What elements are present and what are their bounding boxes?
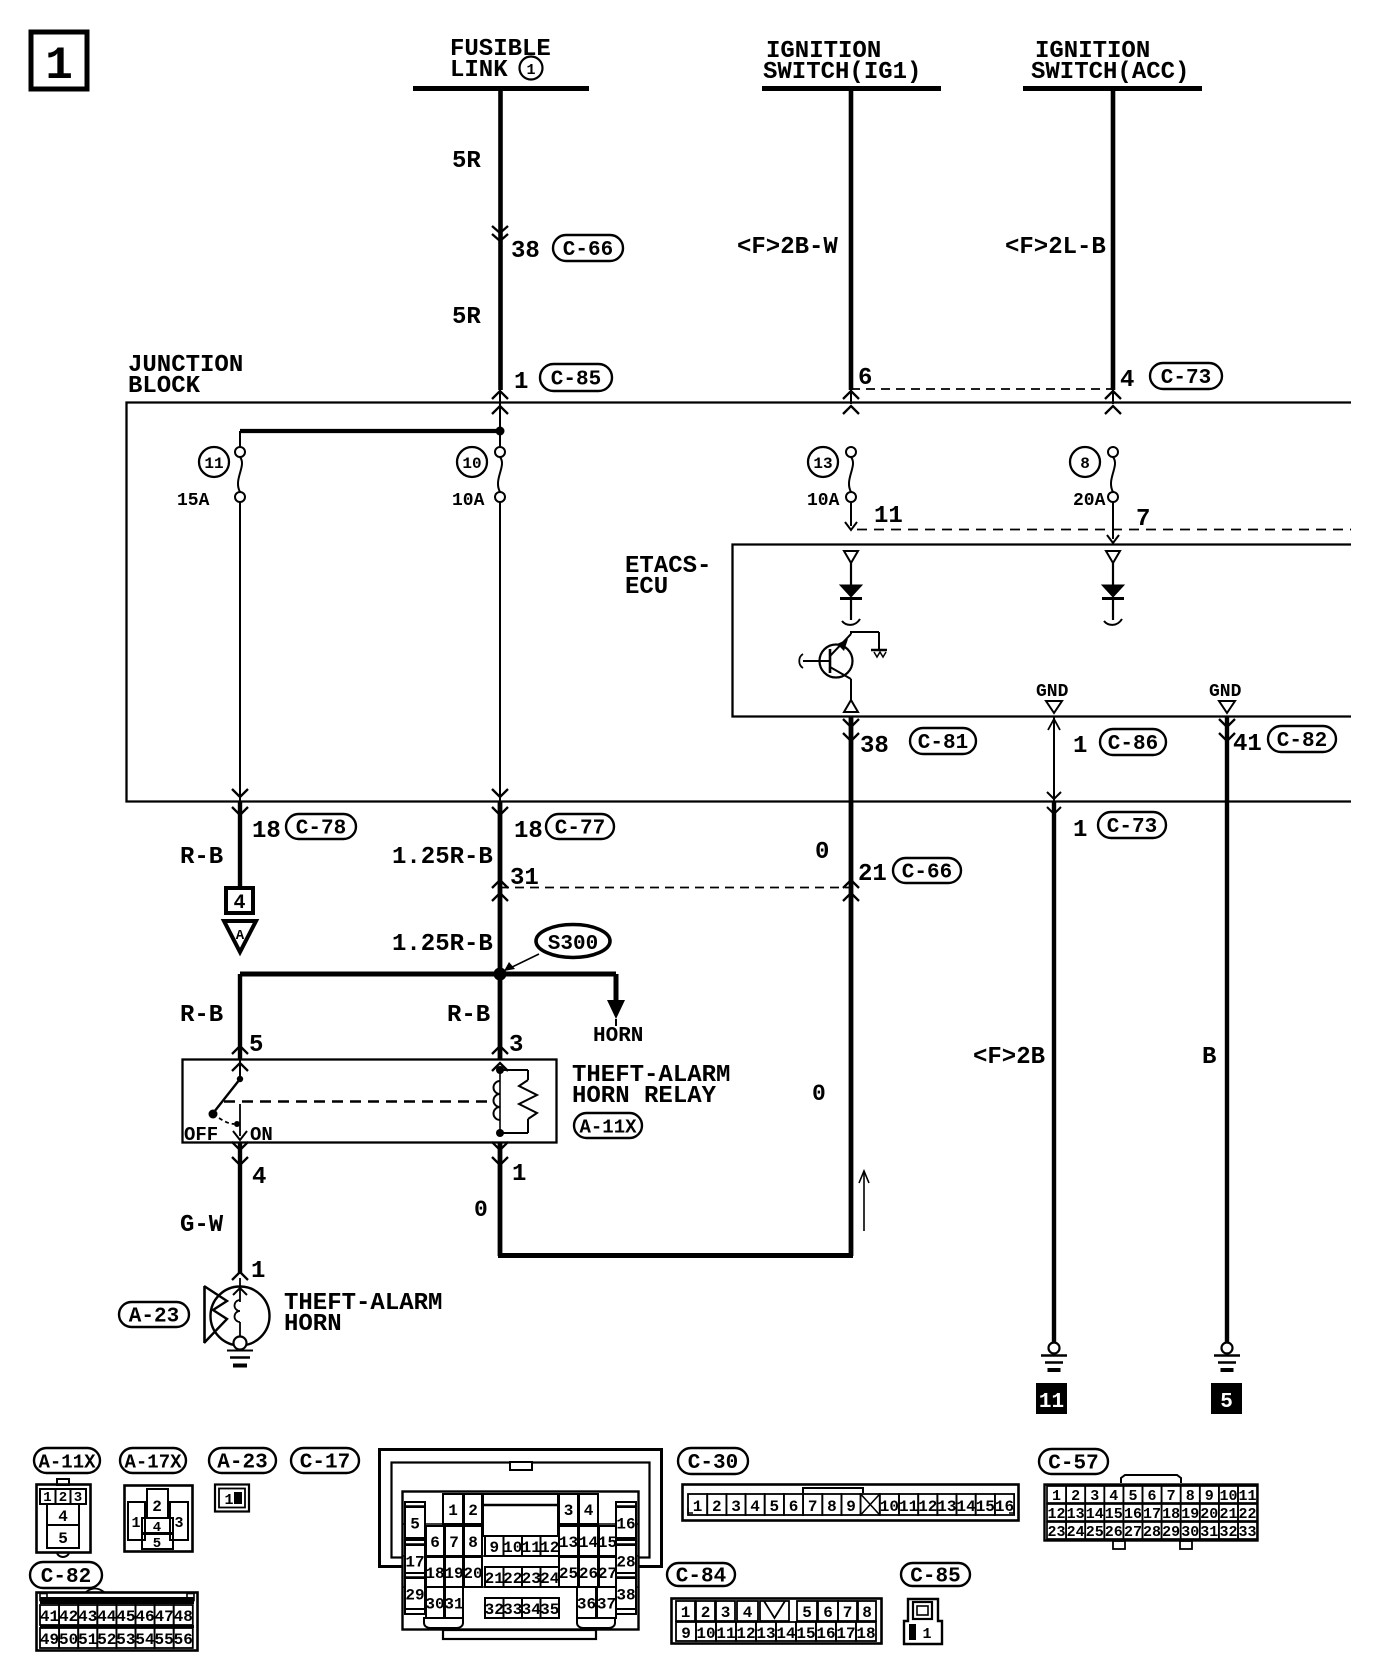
svg-text:5: 5 <box>249 1032 263 1059</box>
svg-text:GND: GND <box>1036 682 1069 702</box>
svg-text:SWITCH(IG1): SWITCH(IG1) <box>763 59 921 86</box>
svg-text:15A: 15A <box>177 491 210 511</box>
svg-text:<F>2B: <F>2B <box>973 1044 1045 1071</box>
svg-text:4: 4 <box>1120 367 1134 394</box>
svg-text:31: 31 <box>1200 1524 1218 1541</box>
svg-text:6: 6 <box>823 1604 833 1622</box>
svg-text:8: 8 <box>468 1534 478 1552</box>
svg-text:2: 2 <box>1071 1488 1080 1505</box>
svg-text:35: 35 <box>540 1601 559 1619</box>
svg-text:15: 15 <box>976 1498 995 1516</box>
svg-text:S300: S300 <box>548 933 598 956</box>
svg-text:52: 52 <box>97 1631 116 1649</box>
svg-text:37: 37 <box>597 1596 616 1614</box>
svg-text:5R: 5R <box>452 304 481 331</box>
wire fuse10 exit C-77 1.25R-B down to relay and S300 <box>392 789 543 1059</box>
connector capsule A-11X <box>574 1113 642 1139</box>
svg-text:C-86: C-86 <box>1108 733 1158 756</box>
svg-text:A-11X: A-11X <box>579 1117 637 1139</box>
svg-text:3: 3 <box>731 1498 741 1516</box>
svg-text:47: 47 <box>154 1608 173 1626</box>
junction block label <box>128 352 243 400</box>
wire ground run (F)2B down to ground 11 <box>973 801 1054 1343</box>
svg-text:27: 27 <box>598 1565 617 1583</box>
svg-text:20: 20 <box>1200 1506 1218 1523</box>
connector capsule C-77 (pin 18) <box>546 814 614 841</box>
svg-text:51: 51 <box>78 1631 97 1649</box>
svg-text:31: 31 <box>444 1596 463 1614</box>
svg-text:19: 19 <box>444 1565 463 1583</box>
svg-text:C-82: C-82 <box>41 1566 91 1589</box>
svg-text:10A: 10A <box>452 491 485 511</box>
connector C-57 pinout <box>1039 1449 1108 1476</box>
off-page triangle A <box>224 921 256 952</box>
page number box 1 <box>31 32 87 92</box>
wire relay pin4 G-W to theft-alarm horn <box>180 1142 266 1285</box>
svg-text:2: 2 <box>152 1498 162 1516</box>
svg-text:18: 18 <box>514 818 543 845</box>
svg-text:A-23: A-23 <box>129 1306 179 1329</box>
svg-text:4: 4 <box>1109 1488 1118 1505</box>
diode D2 (ACC input) <box>1102 551 1124 625</box>
fuse 11 15A <box>177 447 245 511</box>
wire ETACS pin41 ground to C-82/ground 5 <box>1202 717 1262 1343</box>
svg-text:29: 29 <box>405 1587 424 1605</box>
svg-text:2: 2 <box>468 1502 478 1520</box>
svg-text:17: 17 <box>836 1625 855 1643</box>
svg-text:A-11X: A-11X <box>38 1452 96 1474</box>
svg-text:7: 7 <box>808 1498 818 1516</box>
svg-text:33: 33 <box>1238 1524 1256 1541</box>
connector capsule C-82 (pin 41) <box>1268 726 1336 753</box>
relay name labels <box>572 1062 730 1110</box>
svg-text:15: 15 <box>1105 1506 1123 1523</box>
svg-text:SWITCH(ACC): SWITCH(ACC) <box>1031 59 1189 86</box>
svg-text:33: 33 <box>503 1601 522 1619</box>
svg-text:54: 54 <box>135 1631 155 1649</box>
svg-text:5R: 5R <box>452 148 481 175</box>
svg-text:20A: 20A <box>1073 491 1106 511</box>
wire fuse11 exit C-78 R-B to off-page A <box>180 789 281 887</box>
svg-text:6: 6 <box>430 1534 440 1552</box>
svg-text:5: 5 <box>153 1536 161 1552</box>
svg-text:4: 4 <box>233 892 245 915</box>
connector capsule C-78 (pin 18) <box>286 814 356 841</box>
svg-text:6: 6 <box>789 1498 799 1516</box>
svg-text:C-78: C-78 <box>296 818 346 841</box>
wire from C-85 entry to fuse 10 with branch to fuse 11 <box>240 402 505 447</box>
svg-text:1: 1 <box>922 1626 931 1643</box>
svg-text:1: 1 <box>224 1492 233 1509</box>
svg-text:8: 8 <box>827 1498 837 1516</box>
svg-text:22: 22 <box>503 1570 522 1588</box>
svg-text:38: 38 <box>511 238 540 265</box>
connector capsule C-66 (pin 21) <box>893 858 961 885</box>
svg-text:9: 9 <box>846 1498 856 1516</box>
svg-text:C-73: C-73 <box>1161 367 1211 390</box>
svg-text:C-17: C-17 <box>300 1452 350 1475</box>
svg-text:24: 24 <box>540 1570 560 1588</box>
fuse 8 20A <box>1070 447 1118 511</box>
svg-text:C-77: C-77 <box>555 818 605 841</box>
svg-text:R-B: R-B <box>180 844 223 871</box>
svg-text:32: 32 <box>1219 1524 1237 1541</box>
svg-text:10: 10 <box>1219 1488 1237 1505</box>
svg-text:7: 7 <box>843 1604 853 1622</box>
svg-text:2: 2 <box>712 1498 722 1516</box>
svg-text:LINK: LINK <box>450 57 508 84</box>
connector A-17X pinout <box>120 1448 186 1474</box>
wire fusible link to junction block, 5R <box>452 88 540 404</box>
connector A-23 pinout <box>209 1448 276 1475</box>
svg-text:1.25R-B: 1.25R-B <box>392 844 493 871</box>
svg-text:30: 30 <box>1181 1524 1199 1541</box>
svg-text:4: 4 <box>750 1498 760 1516</box>
svg-text:10A: 10A <box>807 491 840 511</box>
svg-text:26: 26 <box>1105 1524 1123 1541</box>
wire fuse 8 to ETACS pin 7 <box>1107 502 1150 543</box>
svg-text:13: 13 <box>1067 1506 1085 1523</box>
svg-text:28: 28 <box>1143 1524 1161 1541</box>
svg-text:1.25R-B: 1.25R-B <box>392 931 493 958</box>
svg-text:4: 4 <box>58 1508 68 1526</box>
svg-text:41: 41 <box>40 1608 59 1626</box>
svg-text:0: 0 <box>474 1197 488 1223</box>
ignition switch ACC feed <box>1023 38 1202 89</box>
svg-text:13: 13 <box>813 455 832 473</box>
svg-text:C-66: C-66 <box>902 862 952 885</box>
connector capsule C-85 (pin 1) <box>540 364 612 392</box>
svg-text:45: 45 <box>116 1608 135 1626</box>
svg-text:16: 16 <box>1124 1506 1142 1523</box>
svg-text:30: 30 <box>425 1596 444 1614</box>
ETACS-ECU box <box>733 545 1352 717</box>
svg-text:34: 34 <box>522 1601 542 1619</box>
svg-text:38: 38 <box>860 733 889 760</box>
svg-text:23: 23 <box>522 1570 541 1588</box>
svg-text:A: A <box>236 928 245 944</box>
svg-text:10: 10 <box>696 1625 715 1643</box>
dashed connector line between IG1 and ACC entries <box>851 388 1113 390</box>
relay switch (OFF/ON) <box>184 1059 273 1146</box>
svg-text:HORN: HORN <box>284 1311 342 1338</box>
svg-text:18: 18 <box>856 1625 875 1643</box>
svg-text:C-82: C-82 <box>1277 730 1327 753</box>
theft-alarm horn name <box>284 1290 442 1338</box>
connector capsule C-73 lower (pin 1) <box>1098 812 1166 839</box>
svg-text:C-66: C-66 <box>563 239 613 262</box>
svg-text:1: 1 <box>131 1515 140 1532</box>
svg-text:22: 22 <box>1238 1506 1256 1523</box>
wire ETACS GND pin1 to C-86/C-73 ground <box>1047 717 1087 814</box>
svg-text:24: 24 <box>1067 1524 1085 1541</box>
svg-text:12: 12 <box>540 1539 559 1557</box>
connector capsule A-23 label <box>119 1302 189 1329</box>
svg-text:1: 1 <box>514 369 528 396</box>
svg-text:11: 11 <box>874 503 903 530</box>
wire IG1 to junction block, (F)2B-W <box>737 88 872 404</box>
svg-text:1: 1 <box>681 1604 691 1622</box>
svg-text:53: 53 <box>116 1631 135 1649</box>
connector capsule C-17 label <box>291 1448 359 1475</box>
relay coil <box>494 1066 504 1137</box>
svg-text:GND: GND <box>1209 682 1242 702</box>
svg-text:1: 1 <box>448 1502 458 1520</box>
svg-text:18: 18 <box>1162 1506 1180 1523</box>
svg-text:14: 14 <box>956 1498 976 1516</box>
svg-text:16: 16 <box>616 1516 635 1534</box>
fuse 10 10A <box>452 447 505 511</box>
ignition switch IG1 feed <box>762 38 941 89</box>
svg-text:11: 11 <box>899 1498 918 1516</box>
wire fuse 11 to C-78 exit <box>239 502 241 801</box>
svg-text:25: 25 <box>559 1565 578 1583</box>
svg-text:9: 9 <box>1205 1488 1214 1505</box>
svg-text:1: 1 <box>1052 1488 1061 1505</box>
junction node S300 <box>494 968 507 981</box>
svg-text:3: 3 <box>1090 1488 1099 1505</box>
svg-text:21: 21 <box>1219 1506 1237 1523</box>
svg-text:55: 55 <box>154 1631 173 1649</box>
svg-text:12: 12 <box>736 1625 755 1643</box>
svg-text:3: 3 <box>721 1604 731 1622</box>
svg-text:11: 11 <box>716 1625 735 1643</box>
svg-text:49: 49 <box>40 1631 59 1649</box>
svg-text:1: 1 <box>512 1161 526 1188</box>
relay contact-coil dashed link <box>224 1100 489 1103</box>
svg-text:0: 0 <box>812 1081 826 1107</box>
connector C-17 pinout (ETACS ECU) <box>380 1450 662 1640</box>
svg-text:48: 48 <box>174 1608 193 1626</box>
junction block box <box>127 403 1352 802</box>
svg-text:1: 1 <box>526 62 535 79</box>
svg-text:14: 14 <box>776 1625 796 1643</box>
relay resistor <box>500 1070 537 1133</box>
ground symbol 5 <box>1214 1343 1240 1371</box>
ETACS-ECU label <box>625 553 711 601</box>
svg-text:ECU: ECU <box>625 574 668 601</box>
svg-text:50: 50 <box>59 1631 78 1649</box>
svg-text:ON: ON <box>250 1124 273 1146</box>
svg-text:14: 14 <box>1086 1506 1104 1523</box>
connector capsule C-86 (pin 1) <box>1100 729 1166 756</box>
svg-text:HORN RELAY: HORN RELAY <box>572 1083 717 1110</box>
connector A-11X pinout <box>34 1448 100 1474</box>
wire ACC to junction block, (F)2L-B <box>1005 88 1134 404</box>
svg-text:16: 16 <box>816 1625 835 1643</box>
svg-text:C-30: C-30 <box>688 1452 738 1475</box>
svg-text:2: 2 <box>701 1604 711 1622</box>
svg-text:5: 5 <box>58 1530 68 1548</box>
svg-text:HORN: HORN <box>593 1025 643 1048</box>
svg-text:12: 12 <box>918 1498 937 1516</box>
svg-text:B: B <box>1202 1044 1216 1071</box>
svg-text:7: 7 <box>449 1534 459 1552</box>
wire relay pin1 0 to pin38 bus <box>474 1081 869 1256</box>
svg-text:C-57: C-57 <box>1048 1453 1098 1476</box>
svg-text:20: 20 <box>463 1565 482 1583</box>
svg-text:36: 36 <box>577 1596 596 1614</box>
wire ETACS pin38 output (thick) down to bottom bus <box>843 717 889 1256</box>
dashed connector line pin31 to pin21 <box>492 880 859 901</box>
GND label and triangle (C-82 side) <box>1209 682 1242 713</box>
fuse 13 10A <box>807 447 856 511</box>
svg-text:13: 13 <box>559 1534 578 1552</box>
svg-text:5: 5 <box>410 1516 420 1534</box>
svg-text:21: 21 <box>858 861 887 888</box>
svg-text:11: 11 <box>1238 1488 1256 1505</box>
splice S300 <box>504 925 610 972</box>
svg-text:4: 4 <box>743 1604 753 1622</box>
svg-text:27: 27 <box>1124 1524 1142 1541</box>
svg-text:41: 41 <box>1233 731 1262 758</box>
svg-text:10: 10 <box>462 455 481 473</box>
diode D1 (IG1 input) <box>840 551 862 625</box>
svg-text:9: 9 <box>489 1539 499 1557</box>
connector C-84 pinout <box>667 1563 735 1589</box>
connector capsule C-81 (pin 38) <box>910 728 976 755</box>
svg-text:28: 28 <box>616 1554 635 1572</box>
wire fuse 10 to C-77 exit <box>499 502 501 801</box>
svg-text:38: 38 <box>616 1587 635 1605</box>
svg-text:13: 13 <box>937 1498 956 1516</box>
svg-text:A-23: A-23 <box>217 1452 267 1475</box>
connector capsule C-73 (pin 4) <box>1150 363 1222 390</box>
svg-text:32: 32 <box>485 1601 504 1619</box>
svg-text:3: 3 <box>174 1515 183 1532</box>
dashed connector line at ETACS inputs <box>857 529 1351 531</box>
svg-text:5: 5 <box>769 1498 779 1516</box>
svg-text:29: 29 <box>1162 1524 1180 1541</box>
svg-text:<F>2B-W: <F>2B-W <box>737 234 838 261</box>
svg-text:43: 43 <box>78 1608 97 1626</box>
svg-text:23: 23 <box>1047 1524 1065 1541</box>
svg-text:17: 17 <box>1143 1506 1161 1523</box>
svg-text:1: 1 <box>251 1258 265 1285</box>
svg-text:17: 17 <box>405 1554 424 1572</box>
svg-text:8: 8 <box>1186 1488 1195 1505</box>
svg-text:C-85: C-85 <box>551 369 601 392</box>
svg-text:A-17X: A-17X <box>124 1452 182 1474</box>
svg-text:13: 13 <box>756 1625 775 1643</box>
svg-text:C-84: C-84 <box>676 1566 726 1589</box>
svg-text:1: 1 <box>1073 733 1087 760</box>
svg-text:25: 25 <box>1086 1524 1104 1541</box>
svg-text:C-81: C-81 <box>918 732 968 755</box>
svg-text:10: 10 <box>503 1539 522 1557</box>
svg-text:15: 15 <box>796 1625 815 1643</box>
svg-text:19: 19 <box>1181 1506 1199 1523</box>
theft-alarm horn A-23 <box>204 1272 270 1366</box>
thick bus wire from node left and to horn arrow <box>240 974 643 1048</box>
svg-text:5: 5 <box>1128 1488 1137 1505</box>
connector C-85 pinout <box>901 1563 970 1589</box>
svg-text:26: 26 <box>579 1565 598 1583</box>
svg-text:OFF: OFF <box>184 1124 218 1146</box>
svg-text:R-B: R-B <box>180 1002 223 1029</box>
svg-text:12: 12 <box>1047 1506 1065 1523</box>
svg-text:BLOCK: BLOCK <box>128 373 201 400</box>
svg-text:C-73: C-73 <box>1107 816 1157 839</box>
connector C-30 pinout <box>678 1448 748 1475</box>
svg-text:4: 4 <box>252 1164 266 1191</box>
svg-text:44: 44 <box>97 1608 117 1626</box>
svg-text:18: 18 <box>252 818 281 845</box>
svg-text:46: 46 <box>135 1608 154 1626</box>
svg-text:4: 4 <box>584 1502 594 1520</box>
svg-text:3: 3 <box>564 1502 574 1520</box>
svg-text:0: 0 <box>815 839 829 866</box>
ground symbol 11 <box>1041 1343 1067 1371</box>
svg-text:3: 3 <box>509 1032 523 1059</box>
svg-text:1: 1 <box>45 40 73 92</box>
svg-text:21: 21 <box>485 1570 504 1588</box>
svg-text:14: 14 <box>579 1534 599 1552</box>
svg-text:6: 6 <box>1147 1488 1156 1505</box>
svg-text:18: 18 <box>425 1565 444 1583</box>
svg-text:8: 8 <box>862 1604 872 1622</box>
svg-text:<F>2L-B: <F>2L-B <box>1005 234 1106 261</box>
svg-text:10: 10 <box>880 1498 899 1516</box>
crossing chevrons at junction block top <box>492 391 1121 414</box>
wire node to relay pin5 R-B <box>180 974 263 1059</box>
svg-text:8: 8 <box>1080 455 1090 473</box>
svg-text:15: 15 <box>598 1534 617 1552</box>
svg-text:11: 11 <box>204 455 223 473</box>
svg-text:1: 1 <box>1073 817 1087 844</box>
svg-text:1: 1 <box>693 1498 703 1516</box>
svg-text:6: 6 <box>858 365 872 392</box>
svg-text:9: 9 <box>681 1625 691 1643</box>
svg-text:5: 5 <box>802 1604 812 1622</box>
theft-alarm horn relay box A-11X <box>183 1060 557 1143</box>
svg-text:11: 11 <box>1039 1391 1064 1414</box>
fusible link 1 power feed <box>413 36 589 89</box>
wire fuse 13 to ETACS pin 11 <box>845 502 903 530</box>
transistor Q1 (horn relay driver) <box>799 631 887 712</box>
svg-text:G-W: G-W <box>180 1212 224 1239</box>
connector capsule C-66 (pin 38) <box>553 235 623 262</box>
svg-text:11: 11 <box>522 1539 541 1557</box>
svg-text:56: 56 <box>174 1631 193 1649</box>
GND label and triangle (C-86 side) <box>1036 682 1069 713</box>
connector C-82 pinout <box>30 1562 102 1589</box>
off-page reference box 4 <box>226 888 253 915</box>
svg-text:C-85: C-85 <box>910 1566 960 1589</box>
svg-text:R-B: R-B <box>447 1002 490 1029</box>
svg-text:5: 5 <box>1220 1391 1233 1414</box>
svg-text:7: 7 <box>1167 1488 1176 1505</box>
svg-text:42: 42 <box>59 1608 78 1626</box>
